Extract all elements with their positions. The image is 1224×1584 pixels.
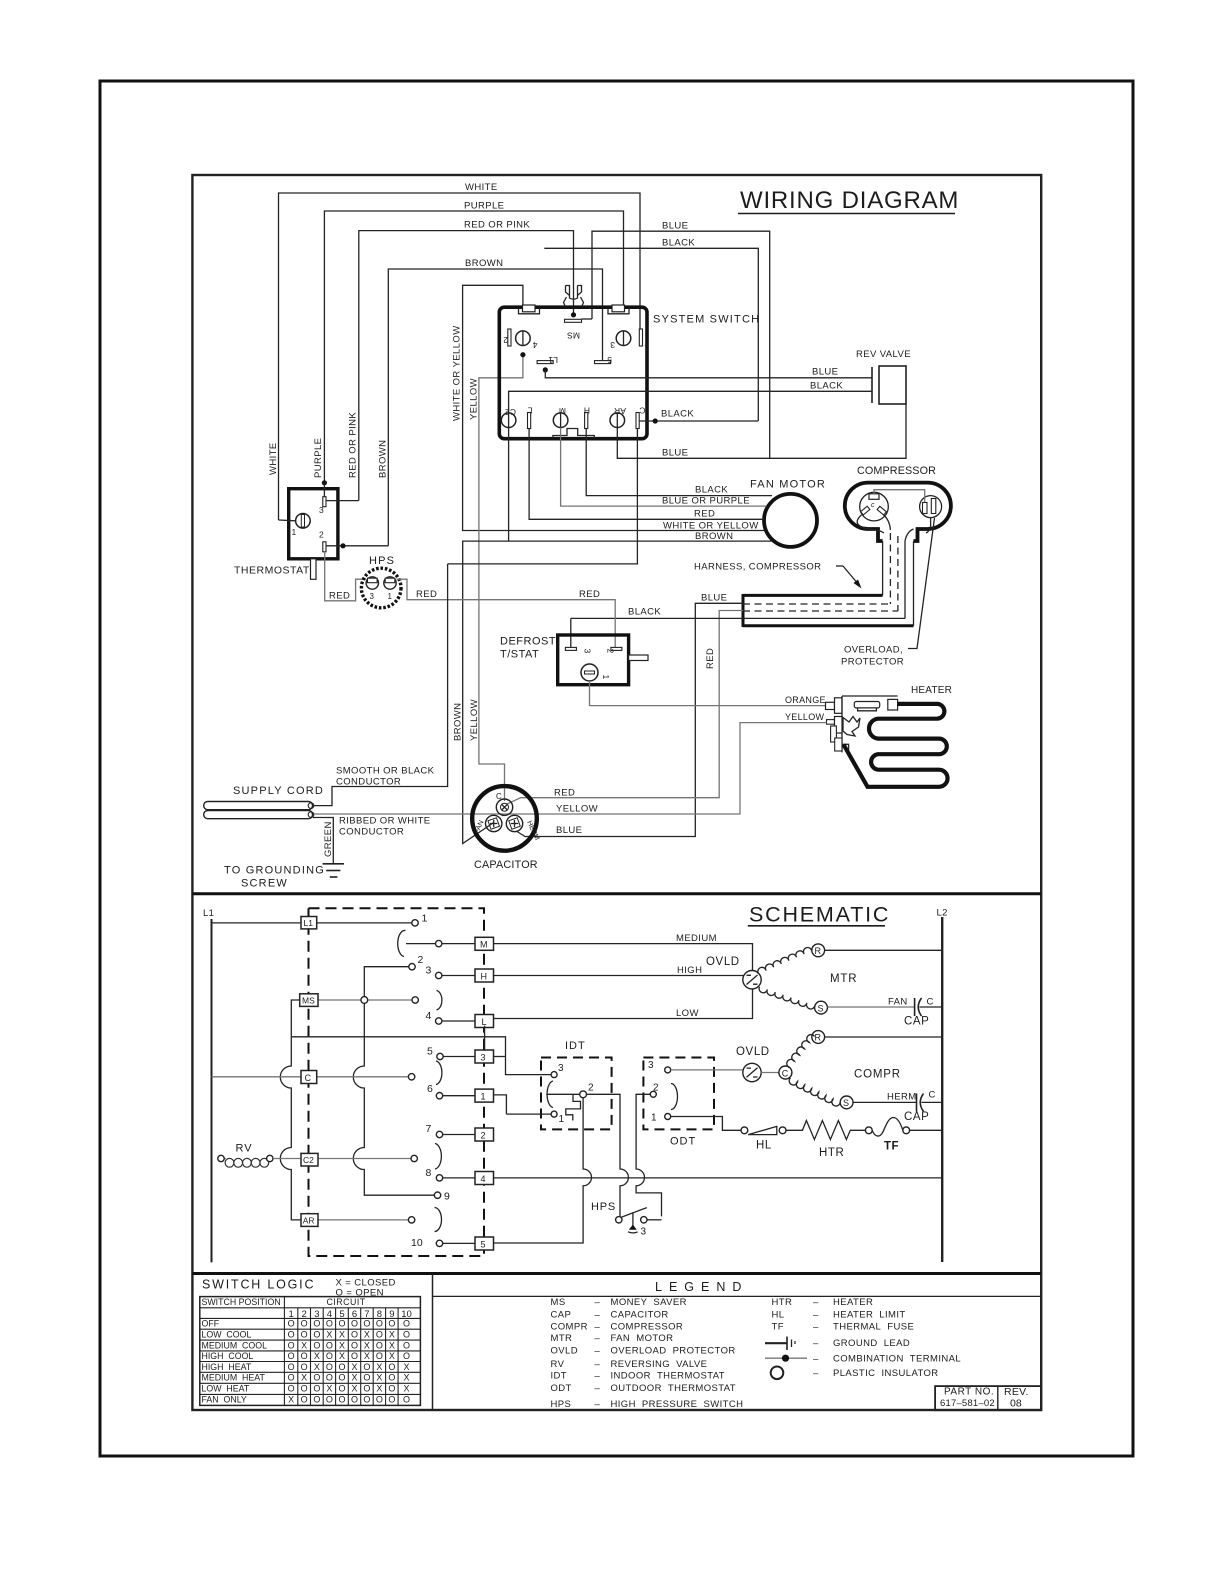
system switch top terminal right bbox=[608, 305, 629, 314]
wire link vertical to IDT3 bbox=[291, 1026, 505, 1062]
legend plastic insulator symbol bbox=[771, 1367, 784, 1380]
system switch MS spade terminal bbox=[564, 286, 584, 341]
svg-text:HL: HL bbox=[756, 1140, 772, 1152]
COMPR S terminal bbox=[840, 1096, 853, 1109]
system switch bottom pin C bbox=[636, 406, 646, 429]
wire IDT wiper to circuit 5 bbox=[494, 1098, 592, 1243]
svg-text:FAN MOTOR: FAN MOTOR bbox=[750, 479, 826, 491]
svg-text:O: O bbox=[376, 1330, 383, 1340]
svg-text:O: O bbox=[388, 1362, 395, 1372]
svg-text:MEDIUM: MEDIUM bbox=[676, 933, 717, 944]
svg-text:X: X bbox=[389, 1340, 395, 1350]
svg-text:X: X bbox=[301, 1373, 307, 1383]
system switch terminal circle 4 bbox=[503, 329, 538, 357]
compressor internal jumper wire bbox=[874, 490, 925, 502]
MS row wire bbox=[318, 997, 418, 1004]
svg-text:T/STAT: T/STAT bbox=[500, 649, 539, 661]
svg-text:INDOOR THERMOSTAT: INDOOR THERMOSTAT bbox=[611, 1371, 726, 1382]
svg-text:–: – bbox=[813, 1368, 819, 1379]
svg-text:HEATER LIMIT: HEATER LIMIT bbox=[833, 1309, 906, 1320]
wire fan RED from L pin bbox=[529, 429, 764, 520]
pole 2 wiper arc bbox=[437, 991, 442, 1010]
svg-text:PURPLE: PURPLE bbox=[464, 201, 504, 212]
svg-text:O: O bbox=[313, 1384, 320, 1394]
svg-text:1: 1 bbox=[559, 1114, 565, 1125]
terminal box 3 bbox=[475, 1050, 506, 1063]
wire BROWN into pin 2 bbox=[326, 543, 388, 548]
svg-text:X: X bbox=[339, 1351, 345, 1361]
terminal box C2 bbox=[301, 1153, 318, 1166]
divider between schematic and tables bbox=[192, 1272, 1041, 1275]
svg-text:X: X bbox=[288, 1395, 294, 1405]
svg-text:MTR: MTR bbox=[830, 973, 857, 985]
terminal box H bbox=[475, 969, 494, 982]
MTR R terminal bbox=[812, 944, 942, 957]
svg-text:–: – bbox=[595, 1309, 601, 1320]
svg-text:BLACK: BLACK bbox=[662, 238, 695, 249]
svg-text:RED: RED bbox=[554, 788, 575, 799]
svg-text:O: O bbox=[388, 1384, 395, 1394]
svg-text:ORANGE: ORANGE bbox=[785, 695, 826, 705]
svg-text:HARNESS, COMPRESSOR: HARNESS, COMPRESSOR bbox=[694, 562, 821, 573]
capacitor C terminal bbox=[496, 792, 513, 815]
svg-text:HPS: HPS bbox=[551, 1399, 572, 1410]
svg-text:1: 1 bbox=[481, 1092, 486, 1102]
svg-text:O: O bbox=[403, 1319, 410, 1329]
MTR winding upper bbox=[758, 948, 812, 974]
COMPR R terminal bbox=[812, 1031, 942, 1044]
part number box bbox=[935, 1386, 1041, 1410]
svg-text:FAN MOTOR: FAN MOTOR bbox=[611, 1333, 674, 1344]
svg-text:O: O bbox=[403, 1351, 410, 1361]
thermostat box bbox=[234, 489, 338, 577]
ground symbol bbox=[224, 864, 344, 890]
svg-text:O: O bbox=[313, 1319, 320, 1329]
svg-text:PLASTIC INSULATOR: PLASTIC INSULATOR bbox=[833, 1368, 939, 1379]
contact 1 bbox=[317, 913, 428, 927]
svg-text:GREEN: GREEN bbox=[323, 821, 334, 857]
defrost t/stat box bbox=[500, 635, 629, 685]
svg-text:O: O bbox=[338, 1362, 345, 1372]
pole 1 wiper arc bbox=[398, 930, 406, 956]
terminal box 1 bbox=[475, 1089, 506, 1114]
svg-text:–: – bbox=[595, 1383, 601, 1394]
inner drawing frame bbox=[192, 175, 1041, 1410]
svg-text:ODT: ODT bbox=[551, 1383, 572, 1394]
COMPR winding upper bbox=[787, 1035, 815, 1068]
svg-text:2: 2 bbox=[418, 954, 424, 966]
svg-text:BLUE: BLUE bbox=[701, 593, 727, 604]
system switch SW box bbox=[499, 307, 760, 439]
outer page border frame bbox=[100, 81, 1133, 1456]
HPS component bbox=[361, 555, 401, 608]
schematic L2 rail bbox=[937, 908, 948, 1263]
legend combination terminal symbol bbox=[765, 1355, 807, 1362]
svg-text:2: 2 bbox=[503, 335, 508, 345]
wire C2 to rev valve BLACK input bbox=[509, 391, 872, 413]
thermostat pin 2 bbox=[319, 530, 326, 552]
defrost side stub bbox=[629, 655, 648, 661]
svg-text:X: X bbox=[301, 1340, 307, 1350]
terminal box MS bbox=[300, 994, 318, 1007]
svg-text:SYSTEM SWITCH: SYSTEM SWITCH bbox=[653, 314, 760, 326]
svg-text:O: O bbox=[351, 1351, 358, 1361]
svg-text:3: 3 bbox=[583, 649, 593, 654]
row M wire and contact bbox=[406, 940, 475, 946]
switch logic table bbox=[200, 1278, 421, 1406]
svg-text:COMPR: COMPR bbox=[854, 1069, 901, 1081]
wire BLUE capacitor to harness bbox=[517, 593, 743, 837]
contact 8 row bbox=[426, 1167, 476, 1181]
svg-text:O: O bbox=[403, 1330, 410, 1340]
svg-text:WIRING DIAGRAM: WIRING DIAGRAM bbox=[740, 187, 959, 214]
svg-text:1: 1 bbox=[388, 592, 393, 601]
wire WHITE into thermostat 1 bbox=[279, 519, 296, 522]
svg-text:6: 6 bbox=[427, 1083, 433, 1095]
svg-text:PROTECTOR: PROTECTOR bbox=[841, 657, 904, 668]
svg-text:–: – bbox=[813, 1353, 819, 1364]
svg-text:SUPPLY CORD: SUPPLY CORD bbox=[233, 785, 324, 797]
wire YELLOW from switch circle4 to capacitor C bbox=[469, 355, 523, 801]
rev valve component bbox=[810, 349, 911, 404]
table area divider bbox=[432, 1274, 434, 1411]
svg-text:MS: MS bbox=[567, 331, 580, 341]
svg-text:LOW: LOW bbox=[676, 1008, 699, 1019]
wire smooth or black conductor bbox=[313, 564, 448, 806]
RV coil bbox=[218, 1143, 273, 1168]
label RED OR PINK vertical bbox=[348, 412, 359, 478]
svg-text:O: O bbox=[403, 1340, 410, 1350]
svg-text:O: O bbox=[301, 1395, 308, 1405]
svg-text:TO GROUNDING: TO GROUNDING bbox=[224, 865, 325, 877]
svg-text:RED OR PINK: RED OR PINK bbox=[464, 220, 530, 231]
svg-text:5: 5 bbox=[607, 355, 612, 365]
svg-text:H: H bbox=[481, 972, 488, 982]
svg-text:O: O bbox=[338, 1373, 345, 1383]
svg-text:3: 3 bbox=[558, 1063, 564, 1074]
svg-text:O: O bbox=[338, 1319, 345, 1329]
wire MS-AR link vertical bbox=[280, 1000, 301, 1220]
wire green to ground bbox=[313, 818, 333, 864]
thermostat circle terminal 1 bbox=[292, 514, 311, 538]
svg-text:C2: C2 bbox=[303, 1155, 314, 1165]
IDT dashed box bbox=[541, 1040, 612, 1129]
svg-text:1: 1 bbox=[292, 527, 297, 537]
thermostat probe stub bbox=[311, 559, 317, 580]
svg-text:SWITCH LOGIC: SWITCH LOGIC bbox=[202, 1278, 315, 1292]
defrost terminal 3 bbox=[565, 647, 592, 653]
AR row wire bbox=[318, 1217, 415, 1223]
svg-text:CAPACITOR: CAPACITOR bbox=[611, 1309, 669, 1320]
svg-text:PART NO.: PART NO. bbox=[944, 1387, 994, 1398]
svg-text:X: X bbox=[364, 1340, 370, 1350]
svg-text:L2: L2 bbox=[937, 908, 948, 919]
legend entries left column bbox=[551, 1297, 744, 1410]
svg-text:SMOOTH OR BLACK: SMOOTH OR BLACK bbox=[336, 766, 435, 777]
overload protector OVLD motor bbox=[706, 956, 761, 989]
wire fan BLUE OR PURPLE from M bbox=[561, 428, 767, 507]
label ribbed or white conductor bbox=[323, 816, 431, 858]
svg-text:O: O bbox=[363, 1319, 370, 1329]
svg-text:1: 1 bbox=[422, 913, 428, 925]
svg-text:O: O bbox=[376, 1395, 383, 1405]
svg-text:RED: RED bbox=[579, 589, 600, 600]
svg-text:TF: TF bbox=[884, 1141, 899, 1153]
svg-text:BLUE: BLUE bbox=[662, 221, 688, 232]
svg-text:X: X bbox=[339, 1330, 345, 1340]
svg-text:O: O bbox=[326, 1362, 333, 1372]
svg-text:IDT: IDT bbox=[565, 1040, 586, 1052]
svg-text:3: 3 bbox=[426, 965, 432, 977]
svg-text:MS: MS bbox=[551, 1297, 566, 1308]
svg-text:O: O bbox=[351, 1340, 358, 1350]
svg-text:LEGEND: LEGEND bbox=[655, 1280, 748, 1294]
system switch bottom pin H bbox=[584, 406, 590, 429]
svg-text:X: X bbox=[314, 1351, 320, 1361]
ODT contact 3 bbox=[648, 1060, 743, 1073]
svg-text:C: C bbox=[927, 997, 934, 1008]
svg-text:HIGH: HIGH bbox=[677, 965, 702, 976]
harness compressor callout bbox=[694, 562, 862, 589]
system switch bottom pin L bbox=[528, 406, 533, 429]
wire PURPLE top run bbox=[324, 201, 623, 484]
svg-text:O: O bbox=[326, 1319, 333, 1329]
HPS switch in schematic bbox=[591, 1201, 662, 1238]
svg-text:3: 3 bbox=[610, 340, 615, 350]
svg-text:M: M bbox=[480, 940, 488, 950]
svg-text:YELLOW: YELLOW bbox=[469, 699, 480, 741]
label PURPLE vertical bbox=[313, 438, 324, 478]
terminal box 2 bbox=[475, 1128, 494, 1141]
terminal box 5 bbox=[475, 1237, 494, 1250]
contact 5 row bbox=[427, 1046, 475, 1060]
capacitor HERM terminal bbox=[506, 815, 540, 841]
HTR heater resistor bbox=[786, 1121, 872, 1160]
svg-text:O: O bbox=[326, 1373, 333, 1383]
svg-text:THERMOSTAT: THERMOSTAT bbox=[234, 565, 310, 577]
svg-text:3: 3 bbox=[648, 1060, 654, 1071]
svg-text:SCREW: SCREW bbox=[241, 878, 288, 890]
svg-text:RED: RED bbox=[694, 509, 715, 520]
svg-text:AR: AR bbox=[614, 406, 626, 416]
svg-text:HTR: HTR bbox=[772, 1297, 793, 1308]
svg-text:O: O bbox=[313, 1395, 320, 1405]
svg-text:BROWN: BROWN bbox=[695, 531, 733, 542]
svg-text:BLACK: BLACK bbox=[628, 607, 661, 618]
label YELLOW lower vertical bbox=[469, 699, 480, 741]
system switch bottom key tab bbox=[553, 429, 594, 439]
svg-text:R: R bbox=[815, 946, 822, 956]
system switch bottom circle M bbox=[553, 406, 568, 428]
pole 5 wiper arc bbox=[435, 1208, 442, 1232]
wire RED OR PINK into pin 3 bbox=[326, 500, 359, 502]
defrost terminal 2 bbox=[606, 647, 622, 653]
svg-text:H: H bbox=[584, 406, 590, 416]
svg-text:OVERLOAD PROTECTOR: OVERLOAD PROTECTOR bbox=[611, 1346, 736, 1357]
svg-text:O: O bbox=[351, 1319, 358, 1329]
ODT contact 2 and wire to HPS bbox=[636, 1083, 661, 1217]
svg-text:FAN: FAN bbox=[888, 997, 908, 1008]
label BROWN lower vertical bbox=[453, 703, 464, 741]
svg-text:O: O bbox=[288, 1330, 295, 1340]
svg-text:X: X bbox=[351, 1384, 357, 1394]
compressor outline bbox=[845, 465, 951, 541]
COMPR winding lower bbox=[789, 1078, 840, 1106]
IDT contact 3 bbox=[506, 1062, 565, 1078]
wire LOW row bbox=[494, 989, 753, 1019]
divider between wiring diagram and schematic bbox=[192, 892, 1041, 895]
svg-text:GROUND LEAD: GROUND LEAD bbox=[833, 1338, 910, 1349]
svg-text:O: O bbox=[326, 1395, 333, 1405]
system switch L1 terminal bar bbox=[537, 355, 558, 373]
svg-text:1: 1 bbox=[601, 675, 611, 680]
legend box bbox=[433, 1280, 1042, 1296]
svg-text:1: 1 bbox=[651, 1113, 657, 1124]
svg-text:THERMAL FUSE: THERMAL FUSE bbox=[833, 1321, 914, 1332]
overload protector OVLD compressor bbox=[736, 1046, 770, 1082]
svg-text:X: X bbox=[403, 1373, 409, 1383]
wire ORANGE defrost to heater bbox=[590, 681, 827, 706]
svg-text:X: X bbox=[376, 1384, 382, 1394]
wire RED thermostat 2 to HPS bbox=[325, 552, 366, 602]
wire WHITE top run bbox=[279, 182, 641, 520]
svg-text:BLACK: BLACK bbox=[810, 381, 843, 392]
ODT contact 1 bbox=[651, 1113, 741, 1131]
svg-text:O: O bbox=[338, 1384, 345, 1394]
wire RED capacitor to harness bbox=[507, 611, 743, 805]
contact 6 row bbox=[427, 1083, 475, 1099]
wire RED HPS to defrost tstat bbox=[397, 579, 616, 648]
svg-text:–: – bbox=[595, 1399, 601, 1410]
svg-text:HIGH COOL: HIGH COOL bbox=[202, 1351, 254, 1361]
system switch terminal circle 3 bbox=[610, 329, 649, 353]
svg-text:O: O bbox=[288, 1351, 295, 1361]
svg-text:BLACK: BLACK bbox=[695, 485, 728, 496]
svg-text:CAP: CAP bbox=[904, 1111, 929, 1123]
svg-text:–: – bbox=[595, 1359, 601, 1370]
svg-text:OVLD: OVLD bbox=[706, 956, 740, 968]
svg-text:O: O bbox=[363, 1384, 370, 1394]
svg-text:YELLOW: YELLOW bbox=[785, 712, 825, 722]
HERM capacitor bbox=[853, 1090, 942, 1124]
svg-text:X: X bbox=[389, 1330, 395, 1340]
svg-text:X: X bbox=[364, 1330, 370, 1340]
svg-text:3: 3 bbox=[319, 505, 324, 515]
compressor right terminal circle bbox=[920, 496, 942, 518]
schematic L1 rail bbox=[203, 908, 214, 1262]
svg-text:5: 5 bbox=[481, 1240, 486, 1250]
compressor pin leads into tube bbox=[857, 515, 930, 542]
legend entries right column bbox=[772, 1297, 962, 1379]
svg-text:L: L bbox=[528, 406, 533, 416]
svg-text:O: O bbox=[288, 1340, 295, 1350]
fan motor circle bbox=[750, 479, 826, 547]
svg-text:MEDIUM COOL: MEDIUM COOL bbox=[202, 1340, 268, 1350]
svg-text:MS: MS bbox=[302, 996, 315, 1006]
svg-text:LOW COOL: LOW COOL bbox=[202, 1330, 252, 1340]
contact 7 row bbox=[426, 1123, 476, 1138]
svg-text:CONDUCTOR: CONDUCTOR bbox=[339, 827, 404, 838]
svg-text:OFF: OFF bbox=[202, 1319, 220, 1329]
svg-text:COMPRESSOR: COMPRESSOR bbox=[857, 465, 936, 477]
terminal box L bbox=[475, 1015, 494, 1028]
svg-text:O: O bbox=[288, 1384, 295, 1394]
title SCHEMATIC bbox=[748, 903, 890, 927]
svg-text:7: 7 bbox=[426, 1123, 432, 1135]
HL heater limit bbox=[741, 1126, 786, 1151]
TF thermal fuse bbox=[872, 1118, 942, 1153]
IDT bimetal zigzag bbox=[566, 1094, 581, 1120]
wire L1 bar to rev valve BLUE input bbox=[545, 370, 872, 378]
svg-text:HEATER: HEATER bbox=[911, 685, 952, 696]
terminal box C bbox=[301, 1071, 317, 1084]
system switch top terminal left bbox=[519, 305, 540, 314]
svg-text:YELLOW: YELLOW bbox=[469, 378, 480, 420]
svg-text:3: 3 bbox=[481, 1053, 486, 1063]
title WIRING DIAGRAM bbox=[738, 187, 959, 214]
svg-text:OVLD: OVLD bbox=[551, 1346, 578, 1357]
svg-text:O: O bbox=[351, 1395, 358, 1405]
capacitor FAN terminal bbox=[473, 815, 501, 835]
heater yellow terminal and crown bbox=[827, 717, 861, 752]
contact 2 bbox=[364, 954, 423, 997]
svg-text:OVERLOAD,: OVERLOAD, bbox=[844, 645, 903, 656]
contact 10 row bbox=[411, 1237, 475, 1249]
wire BLACK switch C to harness bbox=[448, 429, 743, 619]
svg-text:RED: RED bbox=[416, 589, 437, 600]
label WHITE vertical bbox=[268, 442, 279, 475]
wire YELLOW supply to heater bbox=[313, 712, 827, 815]
wire BROWN top run bbox=[388, 258, 602, 546]
svg-text:O: O bbox=[363, 1362, 370, 1372]
svg-text:2: 2 bbox=[319, 530, 324, 540]
svg-text:X: X bbox=[339, 1340, 345, 1350]
svg-text:REV.: REV. bbox=[1004, 1386, 1029, 1398]
ODT wiper arc bbox=[671, 1084, 678, 1110]
svg-text:C: C bbox=[496, 792, 502, 801]
wire RED OR PINK top run bbox=[359, 220, 574, 501]
thermostat pin 3 bbox=[319, 480, 327, 515]
terminal box M bbox=[475, 937, 494, 950]
svg-text:HTR: HTR bbox=[819, 1147, 844, 1159]
system switch bottom circle AR bbox=[610, 406, 626, 428]
wire fan BLACK from H pin bbox=[586, 429, 772, 496]
svg-text:O: O bbox=[301, 1384, 308, 1394]
C2 row wire bbox=[273, 1155, 417, 1161]
svg-text:SCHEMATIC: SCHEMATIC bbox=[749, 903, 890, 927]
svg-text:4: 4 bbox=[533, 340, 538, 350]
svg-text:X: X bbox=[351, 1362, 357, 1372]
svg-text:C: C bbox=[929, 1090, 936, 1101]
svg-text:RED: RED bbox=[329, 590, 350, 601]
svg-text:HIGH PRESSURE SWITCH: HIGH PRESSURE SWITCH bbox=[611, 1399, 744, 1410]
svg-text:RV: RV bbox=[551, 1359, 565, 1370]
svg-text:4: 4 bbox=[481, 1174, 486, 1184]
svg-text:O: O bbox=[403, 1395, 410, 1405]
wire WHITE OR YELLOW from switch to fan bbox=[452, 285, 767, 530]
IDT contact 2 and wire to HPS bbox=[546, 1083, 628, 1217]
svg-text:CAPACITOR: CAPACITOR bbox=[474, 859, 538, 871]
svg-text:O: O bbox=[313, 1330, 320, 1340]
svg-text:O: O bbox=[388, 1319, 395, 1329]
svg-text:10: 10 bbox=[411, 1237, 423, 1249]
svg-text:HPS: HPS bbox=[369, 555, 395, 567]
svg-text:–: – bbox=[595, 1333, 601, 1344]
svg-text:REVERSING VALVE: REVERSING VALVE bbox=[611, 1359, 708, 1370]
svg-text:MTR: MTR bbox=[551, 1333, 573, 1344]
svg-text:X: X bbox=[314, 1362, 320, 1372]
svg-text:FAN ONLY: FAN ONLY bbox=[202, 1395, 247, 1405]
